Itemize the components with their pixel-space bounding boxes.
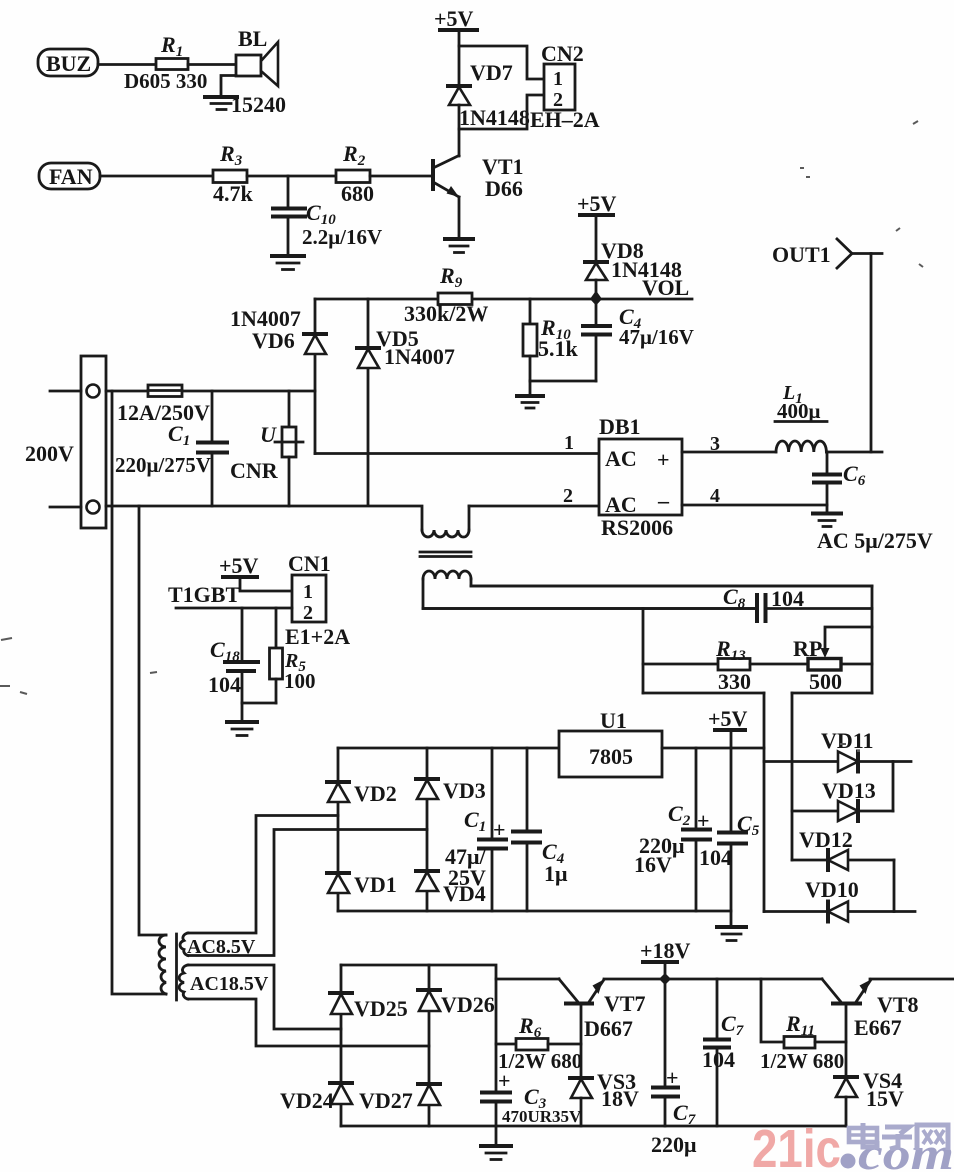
svg-text:12A/250V: 12A/250V	[117, 400, 210, 425]
wire R9 row	[315, 298, 692, 301]
rectifier DB1	[563, 414, 720, 540]
svg-text:+18V: +18V	[640, 938, 691, 963]
svg-text:2.2μ/16V: 2.2μ/16V	[302, 225, 382, 249]
svg-text:104: 104	[771, 586, 804, 611]
svg-text:VD12: VD12	[799, 827, 853, 852]
transformer T2 primary	[420, 506, 471, 557]
wire to CN2 pin2	[459, 95, 544, 129]
transformer T1 winding AC8.5V	[180, 933, 256, 958]
wire +5V to VD8	[595, 215, 598, 262]
regulator U1 7805	[559, 708, 662, 777]
diode VD1	[327, 872, 397, 897]
wire FAN to R3	[100, 175, 213, 178]
svg-text:VD13: VD13	[822, 778, 876, 803]
wire VD12 to VD10 right side	[893, 860, 896, 912]
wire +18V rail left	[604, 978, 822, 981]
svg-text:1: 1	[553, 68, 563, 90]
svg-text:VD27: VD27	[359, 1088, 413, 1113]
diode VD2 with bridge left leg	[327, 748, 397, 911]
svg-text:1N4148: 1N4148	[459, 105, 530, 130]
wire box bottom left	[643, 692, 764, 695]
svg-text:VD11: VD11	[821, 728, 874, 753]
svg-text:470UR35V: 470UR35V	[502, 1107, 582, 1126]
watermark dot	[841, 1154, 856, 1169]
wire box bottom right	[792, 692, 872, 695]
svg-text:200V: 200V	[25, 441, 74, 466]
capacitor C8	[423, 584, 872, 621]
svg-text:VD10: VD10	[805, 877, 859, 902]
capacitor C5	[699, 748, 760, 926]
transistor VT1	[433, 154, 524, 201]
wire pin4 to C6	[682, 504, 827, 507]
connector CN1	[285, 551, 350, 649]
svg-text:C10: C10	[306, 200, 336, 228]
svg-text:C2: C2	[668, 801, 691, 829]
diode VD5 with branch wire	[357, 299, 455, 506]
wire pin3 to L1	[682, 451, 776, 454]
node VOL junction	[590, 291, 602, 306]
svg-text:400μ: 400μ	[777, 399, 821, 423]
wire neutral rail to DB1 pin2	[106, 506, 422, 530]
svg-text:220μ/275V: 220μ/275V	[115, 453, 211, 477]
wire VD13 row	[792, 810, 893, 813]
svg-text:C7: C7	[721, 1011, 744, 1039]
svg-text:VD25: VD25	[354, 996, 408, 1021]
svg-text:21ic: 21ic	[752, 1119, 841, 1172]
wire R6 row	[496, 1043, 516, 1046]
wire fuse row	[106, 390, 315, 393]
diode VD3 with bridge right leg	[416, 748, 486, 911]
wire RP box right side	[871, 586, 874, 693]
capacitor C7 (220u)	[651, 979, 697, 1157]
resistor R9	[404, 263, 488, 326]
capacitor C4 (47u/16V)	[583, 299, 694, 381]
wire lower bridge top rail	[341, 965, 496, 1092]
svg-text:+5V: +5V	[708, 706, 748, 731]
svg-text:330k/2W: 330k/2W	[404, 301, 488, 326]
svg-text:R2: R2	[342, 141, 366, 169]
svg-text:C8: C8	[723, 584, 746, 612]
connector CN2	[530, 41, 600, 132]
wire U1 output	[662, 747, 764, 750]
diode VD10	[805, 877, 859, 922]
svg-text:47μ/16V: 47μ/16V	[619, 325, 694, 349]
transformer T1 core	[175, 934, 178, 1000]
svg-text:AC: AC	[605, 492, 637, 517]
ground (C3)	[481, 1126, 511, 1160]
svg-text:D667: D667	[584, 1016, 633, 1041]
svg-text:1: 1	[564, 432, 574, 454]
svg-text:D66: D66	[485, 176, 523, 201]
svg-text:VD6: VD6	[252, 328, 295, 353]
svg-text:5.1k: 5.1k	[538, 336, 579, 361]
svg-text:+5V: +5V	[219, 553, 259, 578]
svg-text:1/2W 680: 1/2W 680	[498, 1049, 582, 1073]
zener VS3	[570, 1069, 639, 1126]
svg-text:220μ: 220μ	[651, 1132, 697, 1157]
diode VD11	[821, 728, 874, 772]
resistor R13	[715, 636, 751, 694]
wire VD10 row	[764, 910, 915, 913]
svg-text:VD2: VD2	[354, 781, 397, 806]
resistor R1	[124, 32, 207, 93]
svg-text:RS2006: RS2006	[601, 515, 673, 540]
svg-text:CN1: CN1	[288, 551, 331, 576]
ground (C5)	[717, 927, 746, 941]
svg-text:C5: C5	[737, 811, 760, 839]
svg-text:C6: C6	[843, 461, 866, 489]
wire VT1 emitter to ground	[458, 197, 461, 238]
svg-text:1N4007: 1N4007	[384, 344, 455, 369]
svg-text:C1: C1	[168, 421, 190, 449]
wire R6 to VT7 base	[548, 1043, 581, 1046]
transformer T2 secondary	[423, 571, 872, 609]
svg-text:U1: U1	[600, 708, 627, 733]
resistor R5	[270, 608, 316, 703]
wire +5V to CN1 pin1	[240, 577, 292, 591]
node +18V	[640, 938, 691, 985]
wire vertical to VD13/VD12	[791, 693, 794, 860]
diode VD25 with bridge left leg	[330, 965, 408, 1126]
wire AC8.5V upper to VD2 bridge	[188, 816, 338, 934]
wire R10/C4 bottom	[530, 380, 596, 383]
wire R2 to VT1 base	[370, 175, 432, 178]
ground (VT1)	[445, 239, 473, 253]
zener VS4	[835, 1068, 904, 1126]
svg-text:4.7k: 4.7k	[213, 181, 254, 206]
svg-text:2: 2	[303, 602, 313, 624]
resistor R10	[523, 299, 579, 381]
terminal FAN	[39, 163, 100, 189]
wire to CN2 pin1	[459, 46, 544, 79]
resistor R3	[213, 141, 254, 206]
wire bridge bottom rail	[338, 910, 731, 913]
wire R11 to VT8 base	[815, 1041, 846, 1044]
svg-text:680: 680	[341, 181, 374, 206]
svg-text:VD26: VD26	[441, 992, 495, 1017]
svg-text:R3: R3	[219, 141, 243, 169]
node +5V (VD8)	[577, 191, 617, 216]
watermark wang	[917, 1125, 948, 1150]
wire RP box left side	[642, 609, 645, 694]
svg-text:C18: C18	[210, 637, 240, 665]
varistor U CNR	[230, 391, 303, 506]
ground (C18)	[227, 722, 257, 736]
svg-text:VT7: VT7	[604, 991, 646, 1016]
svg-text:VD7: VD7	[470, 60, 513, 85]
svg-text:15240: 15240	[231, 92, 286, 117]
svg-text:15V: 15V	[866, 1086, 904, 1111]
svg-text:C7: C7	[673, 1100, 696, 1128]
svg-text:D605 330: D605 330	[124, 69, 207, 93]
watermark zi	[882, 1127, 912, 1149]
svg-text:U: U	[260, 422, 277, 447]
svg-text:RP: RP	[793, 636, 822, 661]
svg-text:C1: C1	[464, 807, 486, 835]
terminal OUT1	[772, 239, 882, 268]
wire R3 to R2	[247, 175, 336, 178]
wire BL to ground	[221, 76, 236, 97]
svg-text:CNR: CNR	[230, 458, 279, 483]
wire R13 row	[643, 663, 718, 666]
wire AC18.5V lower to VD26 bridge	[188, 999, 429, 1046]
svg-text:E1+2A: E1+2A	[285, 624, 350, 649]
wire R13 to RP	[750, 663, 808, 666]
svg-text:EH–2A: EH–2A	[530, 107, 600, 132]
svg-text:–: –	[657, 488, 670, 513]
wire R11 feed	[761, 979, 784, 1042]
ground (C6)	[813, 514, 841, 527]
svg-text:1: 1	[303, 581, 313, 603]
wire pin2 continue	[469, 505, 599, 508]
transformer T1 primary winding	[159, 935, 166, 994]
svg-text:OUT1: OUT1	[772, 242, 831, 267]
svg-text:R13: R13	[715, 636, 746, 664]
svg-text:+: +	[666, 1065, 679, 1090]
svg-text:VT8: VT8	[877, 992, 919, 1017]
wire VT8 base lead	[845, 1004, 848, 1077]
ground (C10)	[272, 256, 304, 270]
svg-text:R6: R6	[518, 1013, 542, 1041]
svg-text:104: 104	[699, 845, 732, 870]
wire VD8 to junction	[595, 280, 598, 299]
scan speck marks	[0, 121, 923, 751]
diode VD26 with bridge right leg	[418, 965, 495, 1126]
wire VD11 row	[764, 760, 911, 763]
transistor VT7	[559, 979, 646, 1041]
wire mains line down to T1 primary	[112, 391, 166, 994]
svg-text:VD24: VD24	[280, 1088, 334, 1113]
capacitor C2	[634, 748, 710, 911]
svg-text:VD3: VD3	[443, 778, 486, 803]
diode VD8	[585, 238, 689, 300]
diode VD7	[448, 60, 530, 130]
diode VD27	[359, 1084, 440, 1113]
svg-text:VD1: VD1	[354, 872, 397, 897]
wire R1 to BL	[188, 63, 236, 66]
capacitor C4 (1u)	[513, 748, 568, 911]
svg-text:DB1: DB1	[599, 414, 641, 439]
svg-text:104: 104	[702, 1047, 735, 1072]
svg-text:E667: E667	[854, 1015, 902, 1040]
capacitor C3	[482, 1068, 582, 1126]
svg-text:18V: 18V	[601, 1086, 639, 1111]
svg-text:104: 104	[208, 672, 241, 697]
wire VD11 to VD13 right side	[892, 762, 895, 812]
potentiometer RP	[793, 627, 872, 694]
ground (BL)	[205, 97, 237, 110]
wire neutral down to T1 primary	[139, 506, 166, 935]
svg-text:R1: R1	[160, 32, 183, 60]
node +5V (output)	[708, 706, 748, 748]
wire RP to right side	[841, 663, 872, 666]
resistor R6	[498, 1013, 582, 1073]
terminal BUZ	[38, 49, 98, 76]
capacitor C1 (220u/275V)	[115, 391, 227, 506]
svg-text:R9: R9	[439, 263, 463, 291]
resistor R2	[336, 141, 374, 206]
capacitor C10	[273, 176, 382, 255]
node +5V (VT1)	[434, 6, 477, 31]
resistor R11	[760, 1011, 844, 1073]
watermark dian	[849, 1123, 877, 1147]
svg-text:BL: BL	[238, 26, 267, 51]
wire OUT1 down to L1 output	[870, 254, 873, 453]
speaker BL	[231, 26, 286, 117]
ground (R10)	[517, 381, 543, 408]
svg-text:2: 2	[563, 485, 573, 507]
wire to ground	[241, 703, 244, 721]
wire C18/R5 common	[242, 702, 276, 705]
wire VT7 base lead	[580, 1004, 583, 1078]
svg-text:BUZ: BUZ	[46, 51, 91, 76]
svg-text:16V: 16V	[634, 852, 672, 877]
capacitor C18	[208, 608, 258, 703]
svg-text:CN2: CN2	[541, 41, 584, 66]
svg-text:VOL: VOL	[642, 275, 689, 300]
wire rail to VT7 collector	[496, 978, 559, 981]
wire L1 to OUT1	[827, 451, 883, 454]
diode VD6 with branch wire	[230, 299, 326, 454]
node +5V (CN1)	[219, 553, 259, 578]
svg-text:1μ: 1μ	[544, 861, 568, 886]
svg-text:+5V: +5V	[434, 6, 474, 31]
svg-text:T1GBT: T1GBT	[168, 582, 240, 607]
wire +5V down to VD7	[458, 30, 461, 86]
svg-text:1/2W 680: 1/2W 680	[760, 1049, 844, 1073]
wire pin1 row	[315, 452, 599, 455]
transistor VT8	[822, 979, 919, 1040]
svg-text:+5V: +5V	[577, 191, 617, 216]
wire VD7 to VT1 collector	[458, 105, 461, 156]
svg-text:AC 5μ/275V: AC 5μ/275V	[817, 528, 933, 553]
svg-text:AC: AC	[605, 446, 637, 471]
svg-text:500: 500	[809, 669, 842, 694]
svg-text:330: 330	[718, 669, 751, 694]
wire bridge top rail to U1	[338, 747, 559, 750]
diode VD24	[280, 1083, 352, 1113]
wire AC8.5V lower to VD3 bridge	[188, 830, 427, 956]
wire BUZ to R1	[98, 63, 156, 66]
wire bottom rail (18V section)	[341, 1125, 846, 1128]
diode VD12	[799, 827, 853, 870]
inductor L1	[775, 382, 827, 452]
svg-text:FAN: FAN	[49, 164, 93, 189]
svg-text:AC18.5V: AC18.5V	[190, 973, 269, 995]
wire VD12 row	[792, 859, 894, 862]
capacitor C1 (47u/25V)	[445, 748, 506, 911]
wire vertical to VD10/VD11	[763, 693, 766, 912]
svg-text:+: +	[498, 1068, 511, 1093]
transformer T1 winding AC18.5V	[179, 965, 269, 999]
fuse 12A/250V	[117, 385, 210, 425]
svg-text:R11: R11	[785, 1011, 815, 1039]
svg-text:100: 100	[284, 669, 316, 693]
capacitor C7 (104)	[702, 979, 744, 1126]
wire AC18.5V upper to VD25 bridge	[188, 965, 341, 1029]
wire T1GBT to CN1 pin2	[176, 607, 292, 610]
capacitor C6	[814, 452, 933, 553]
wire +18V rail right	[870, 978, 954, 981]
svg-text:+: +	[657, 447, 670, 472]
svg-text:25V: 25V	[448, 865, 486, 890]
diode VD4	[416, 871, 486, 906]
wire C8 upper row	[471, 585, 872, 588]
svg-text:+: +	[493, 817, 506, 842]
connector 200V input	[25, 356, 106, 528]
svg-text:7805: 7805	[589, 744, 633, 769]
diode VD13	[822, 778, 876, 821]
svg-text:+: +	[697, 808, 710, 833]
